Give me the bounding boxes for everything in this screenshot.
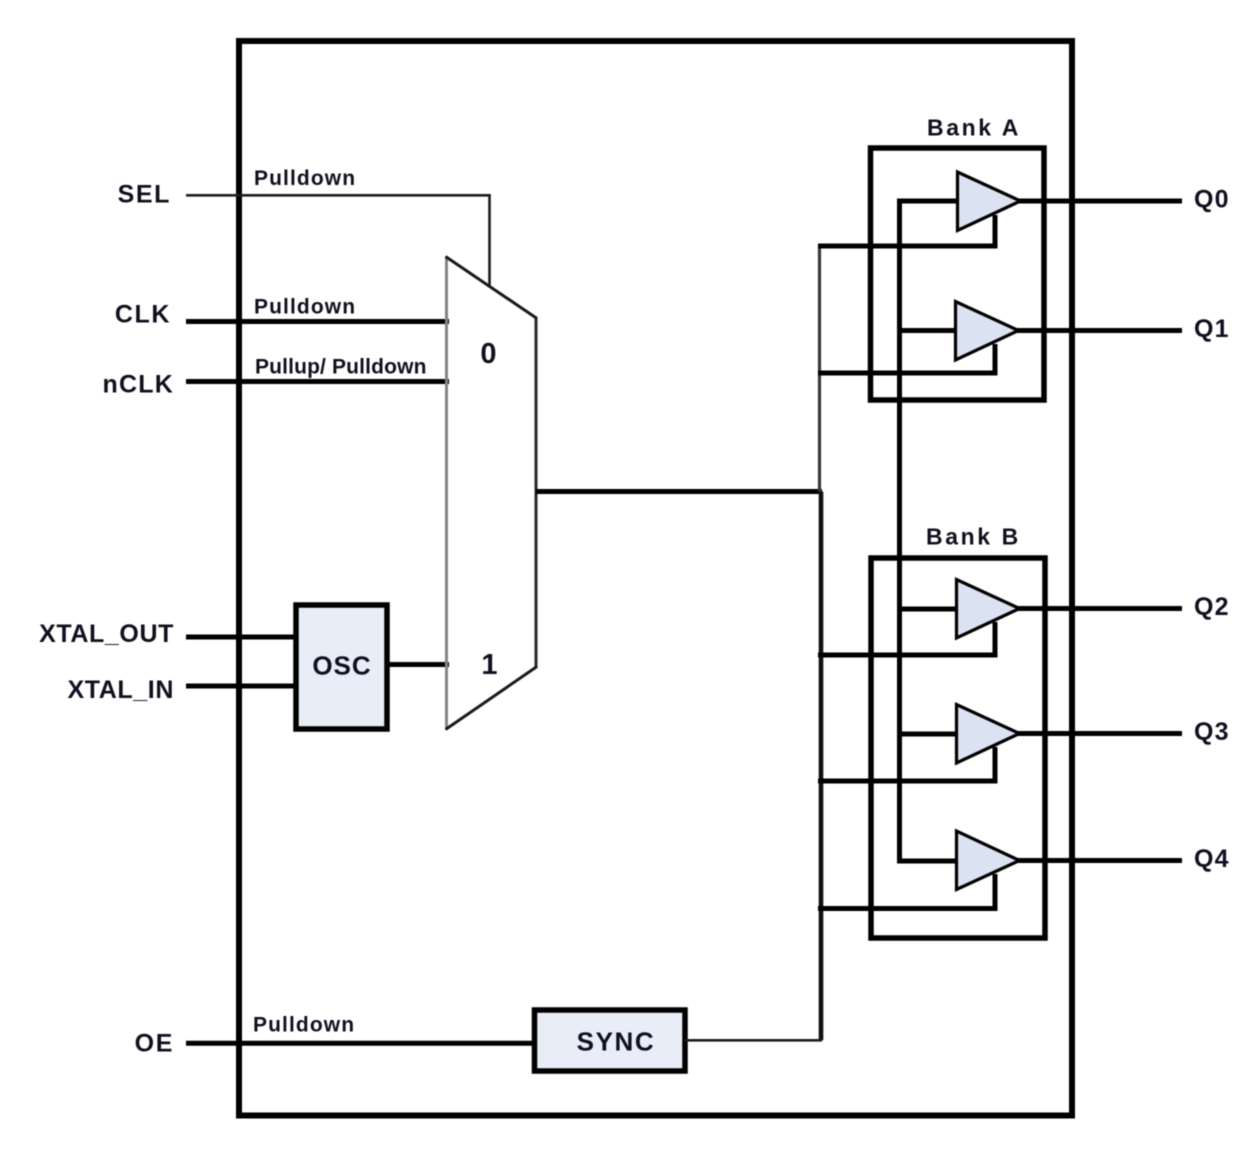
wire Q1 buffer input (897, 328, 958, 333)
svg-text:CLK: CLK (115, 301, 171, 329)
wire Q4 enable riser (993, 874, 998, 909)
wire Q0 enable tap (818, 244, 998, 249)
output buffer B0 (957, 580, 1020, 639)
output buffer B1 (957, 705, 1020, 764)
svg-text:SYNC: SYNC (577, 1027, 656, 1057)
wire Q2 enable riser (993, 622, 998, 655)
svg-text:OE: OE (135, 1030, 174, 1058)
wire Q0 enable riser (993, 215, 998, 246)
wire Q3 enable tap (818, 779, 998, 784)
wire Q3 output (1016, 731, 1182, 736)
wire Q1 output (1015, 328, 1182, 333)
Bank B enclosure (871, 558, 1045, 938)
wire nCLK input (186, 379, 449, 384)
svg-text:Q2: Q2 (1194, 593, 1230, 621)
svg-text:OSC: OSC (312, 651, 371, 681)
net clock bus to buffer inputs (897, 201, 902, 861)
multiplexer MUX right edge (535, 318, 538, 668)
wire Q4 buffer input (897, 859, 958, 864)
wire Q2 output (1016, 606, 1182, 611)
wire Q3 buffer input (897, 732, 958, 737)
multiplexer MUX left edge (445, 257, 448, 730)
wire XTAL_IN input (186, 684, 298, 689)
wire Q0 buffer input (897, 199, 958, 204)
svg-text:0: 0 (480, 338, 496, 370)
svg-text:Pulldown: Pulldown (254, 296, 356, 319)
svg-text:Q1: Q1 (1194, 315, 1230, 343)
svg-text:1: 1 (481, 649, 497, 681)
svg-text:Bank B: Bank B (926, 524, 1021, 550)
output buffer A0 (958, 172, 1021, 231)
wire OSC output to mux input 1 (387, 662, 449, 667)
svg-text:Q0: Q0 (1194, 186, 1230, 214)
output buffer A1 (956, 302, 1019, 361)
crystal oscillator OSC block (296, 605, 387, 729)
svg-text:Q4: Q4 (1194, 845, 1230, 873)
output buffer B2 (957, 831, 1020, 890)
svg-text:nCLK: nCLK (103, 371, 174, 399)
wire Q4 output (1016, 858, 1182, 863)
svg-text:XTAL_OUT: XTAL_OUT (39, 620, 174, 648)
Bank A enclosure (871, 148, 1045, 400)
synchronizer SYNC block (535, 1010, 686, 1071)
wire Q0 output (1017, 199, 1182, 204)
wire SYNC output to enable bus (685, 1039, 822, 1042)
wire Q2 buffer input (897, 607, 958, 612)
svg-text:XTAL_IN: XTAL_IN (67, 676, 174, 704)
wire CLK input (186, 319, 449, 324)
svg-text:Pulldown: Pulldown (254, 167, 356, 190)
wire SEL input (186, 194, 491, 197)
chip outer boundary U1 (239, 41, 1072, 1116)
multiplexer MUX bottom slant edge (446, 667, 538, 730)
wire Q1 enable tap (818, 371, 998, 376)
wire XTAL_OUT input (186, 635, 298, 640)
svg-text:Q3: Q3 (1194, 718, 1230, 746)
wire OE input (186, 1041, 536, 1046)
svg-text:SEL: SEL (118, 181, 171, 209)
wire mux output (536, 489, 822, 494)
svg-text:Pulldown: Pulldown (253, 1014, 355, 1037)
wire Q3 enable riser (993, 747, 998, 781)
wire Q1 enable riser (993, 344, 998, 373)
net enable/clock distribution bus lower segment (819, 492, 824, 1041)
svg-text:Pullup/ Pulldown: Pullup/ Pulldown (255, 356, 427, 379)
net enable/clock distribution bus upper segment (818, 246, 821, 492)
svg-text:Bank A: Bank A (927, 115, 1021, 141)
wire Q4 enable tap (818, 906, 998, 911)
multiplexer MUX top slant edge (446, 257, 538, 319)
wire Q2 enable tap (818, 653, 998, 658)
wire SEL drop to mux select (488, 194, 491, 288)
